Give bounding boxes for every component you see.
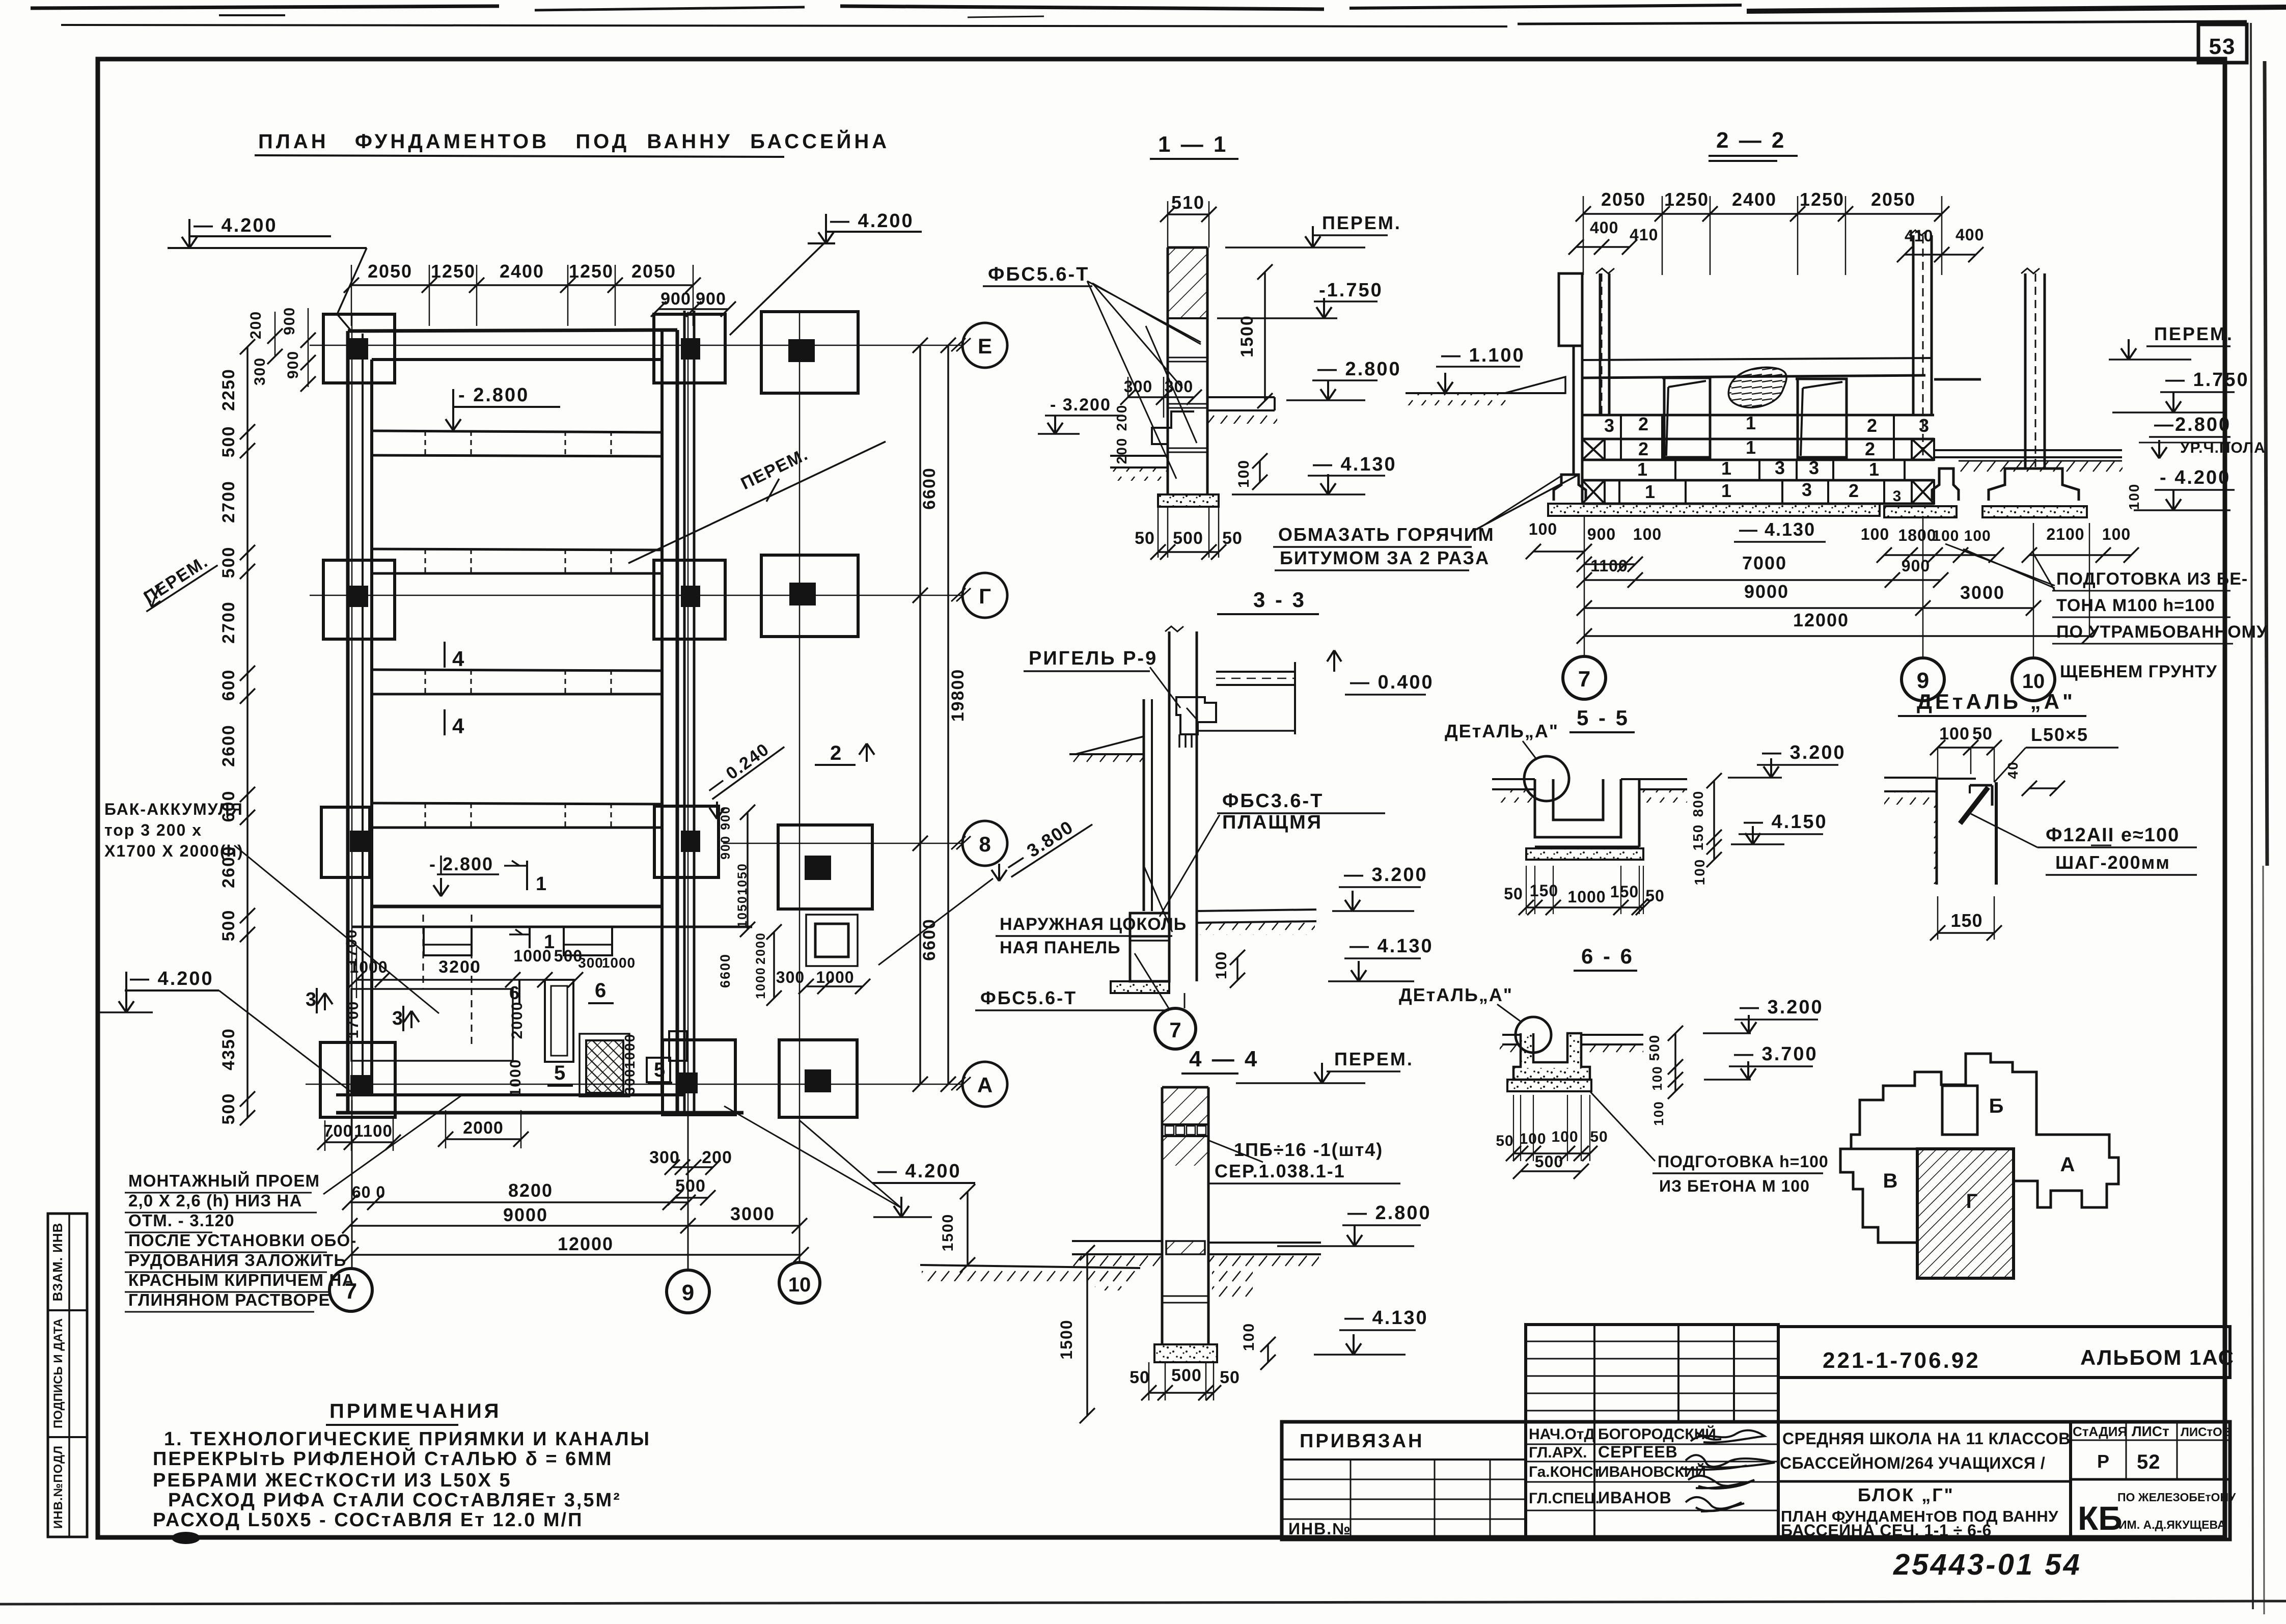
svg-text:1: 1 <box>536 873 546 895</box>
grid circle E <box>962 323 1007 368</box>
section title 1-1 <box>1150 132 1238 159</box>
section title 2-2 <box>1709 128 1798 161</box>
grid circle A <box>962 1062 1007 1107</box>
key plan inner white block <box>1942 1086 1977 1135</box>
svg-text:— 3.200: — 3.200 <box>1344 864 1428 886</box>
section 5-5 detail circle A <box>1524 756 1569 801</box>
svg-text:2: 2 <box>1867 415 1877 436</box>
svg-text:200: 200 <box>247 311 264 339</box>
section 5-5 bottom dims 50 150 1000 150 50 <box>1504 866 1665 915</box>
section 5-5 elevation -4.150 <box>1731 811 1828 844</box>
key plan building outline <box>1840 1054 2118 1278</box>
svg-text:ГЛИНЯНОМ РАСТВОРЕ: ГЛИНЯНОМ РАСТВОРЕ <box>128 1290 330 1309</box>
section 5-5 channel <box>1492 779 1639 847</box>
svg-text:ГЛ.СПЕЦ.: ГЛ.СПЕЦ. <box>1529 1490 1600 1507</box>
section 2-2 door panel left <box>1662 378 1710 457</box>
svg-text:900: 900 <box>696 289 726 309</box>
pool wall bottom (axis A) <box>336 1095 743 1113</box>
detail A dims 100 50 <box>1930 724 2002 782</box>
svg-text:150: 150 <box>1610 883 1639 901</box>
section 1-1 dim 100 <box>1235 453 1268 490</box>
column 7/A black square <box>350 1075 370 1096</box>
svg-text:ИНВ.№: ИНВ.№ <box>1288 1520 1352 1538</box>
svg-text:6 - 6: 6 - 6 <box>1581 944 1634 968</box>
svg-text:8: 8 <box>979 832 990 856</box>
detail A label shag-200mm <box>2046 852 2197 875</box>
section 1-1 dim 510 <box>1160 192 1217 247</box>
grid circle 9 bottom <box>667 1113 709 1313</box>
section 2-2 dims 9000 3000 <box>1577 581 2041 616</box>
elevation -2.800 machine room <box>429 854 499 896</box>
svg-text:БЛОК „Гʺ: БЛОК „Гʺ <box>1858 1484 1954 1505</box>
svg-text:50: 50 <box>1220 1368 1240 1387</box>
footing at 9/G <box>654 560 725 639</box>
detail A rebar diagonal <box>1960 787 1988 823</box>
svg-text:221-1-706.92: 221-1-706.92 <box>1823 1348 1980 1373</box>
right rotated dim chain 900 900 1050 1050 2000 1000 <box>719 805 782 1006</box>
svg-text:Х1700 Х 2000(h): Х1700 Х 2000(h) <box>104 842 244 860</box>
svg-text:— 4.130: — 4.130 <box>1313 454 1397 475</box>
svg-text:— 4.130: — 4.130 <box>1349 935 1434 957</box>
svg-text:Г: Г <box>979 584 991 608</box>
elevation -3.800 diagonal near axis 8 <box>878 807 1092 965</box>
footing at 7/A <box>320 1042 395 1117</box>
svg-text:ФБС5.6-Т: ФБС5.6-Т <box>980 987 1077 1008</box>
svg-text:400: 400 <box>1590 218 1618 237</box>
svg-text:— 3.200: — 3.200 <box>1762 742 1846 763</box>
svg-text:3200: 3200 <box>438 957 481 977</box>
title block stadiya list listov <box>2071 1422 2231 1479</box>
svg-text:100: 100 <box>1235 459 1252 488</box>
svg-text:2050: 2050 <box>368 261 412 282</box>
svg-text:1: 1 <box>1746 412 1756 433</box>
section 3-3 elevation -0.400 <box>1327 650 1434 695</box>
svg-text:ДЕтАЛЬ„Аʺ: ДЕтАЛЬ„Аʺ <box>1399 984 1513 1005</box>
svg-text:— 4.150: — 4.150 <box>1744 811 1828 833</box>
svg-text:900: 900 <box>285 350 301 379</box>
svg-text:ПЕРЕМ.: ПЕРЕМ. <box>2154 323 2234 344</box>
handwritten inventory number 25443-01 54 <box>1893 1548 2082 1581</box>
svg-text:А: А <box>2060 1153 2075 1176</box>
svg-text:150: 150 <box>1690 824 1706 851</box>
section 3-3 dim 100 <box>1213 950 1245 988</box>
svg-text:2000: 2000 <box>754 932 768 965</box>
scan artifact: torn top edge <box>31 5 2286 26</box>
title block upper small table <box>1526 1325 1778 1422</box>
section 2-2 dims row 100 900 100 -4.130 100 1800 100 100 2100 100 <box>1526 519 2139 572</box>
title block object name <box>1778 1429 2071 1539</box>
svg-text:19800: 19800 <box>948 669 968 722</box>
svg-text:5: 5 <box>554 1062 565 1084</box>
detail A dim 40 <box>2005 761 2065 796</box>
svg-text:500: 500 <box>219 546 238 579</box>
section 4-4 bottom dims 50 500 50 <box>1130 1362 1240 1400</box>
grid circle 7 bottom <box>329 1100 372 1311</box>
section 3-3 column <box>1165 626 1197 981</box>
svg-text:В: В <box>1883 1170 1898 1192</box>
section 4-4 wall <box>1162 1087 1208 1344</box>
column 7/E black square <box>349 338 368 360</box>
section 4-4 elevation -4.130 <box>1314 1307 1428 1355</box>
top dimension line 2050 1250 2400 1250 2050 <box>344 261 701 326</box>
section 2-2 top dimension line <box>1576 189 1949 275</box>
note podgotovka iz betona <box>1945 544 2268 681</box>
footing at 10/E standalone <box>761 312 858 393</box>
svg-text:2050: 2050 <box>631 261 676 282</box>
svg-text:300: 300 <box>622 1068 638 1095</box>
footing at 7/8 <box>321 807 370 877</box>
section 2-2 dims 1100 7000 900 <box>1577 553 1948 588</box>
elevation -4.200 left lower <box>97 968 356 1096</box>
svg-text:ЩЕБНЕМ ГРУНТУ: ЩЕБНЕМ ГРУНТУ <box>2060 662 2217 681</box>
svg-text:100: 100 <box>1861 525 1889 543</box>
svg-text:2400: 2400 <box>500 261 544 282</box>
svg-text:1000: 1000 <box>1567 888 1606 906</box>
column 9/8 black square <box>681 831 700 852</box>
svg-text:РИГЕЛЬ Р-9: РИГЕЛЬ Р-9 <box>1029 648 1158 669</box>
footing at 9/E <box>654 314 725 383</box>
section cut mark 2 right <box>815 742 874 765</box>
svg-text:1000: 1000 <box>754 967 768 999</box>
svg-text:1: 1 <box>1637 459 1647 480</box>
section 1-1 left dims 300 300 and 200 200 <box>1114 377 1202 464</box>
pool wall right (axis 9 inner) <box>662 330 677 1113</box>
footing at 10/8 standalone <box>778 825 872 909</box>
detail A floor slab left <box>1884 778 1937 884</box>
svg-text:200: 200 <box>702 1148 732 1167</box>
section 2-2 right elevation -4.200 <box>2126 467 2235 510</box>
section cut marks 3 <box>306 988 419 1031</box>
svg-text:700: 700 <box>323 1121 353 1140</box>
title block KB po zhelezobetonu <box>2078 1491 2236 1537</box>
section 6-6 channel <box>1513 1033 1590 1080</box>
wall on axis 9 full height <box>684 311 694 1113</box>
section 2-2 dims 410 400 right <box>1897 226 1984 262</box>
section 2-2 pool top surface line <box>1582 358 1981 379</box>
svg-text:4: 4 <box>452 647 464 671</box>
section 2-2 far right column (axis 10) <box>2021 268 2045 469</box>
svg-text:800: 800 <box>1690 790 1706 817</box>
note block montage opening <box>125 1096 461 1312</box>
svg-text:— 1.750: — 1.750 <box>2165 369 2249 391</box>
svg-text:— 4.200: — 4.200 <box>130 968 214 989</box>
grid line break ticks <box>951 338 971 1090</box>
svg-text:900: 900 <box>719 806 733 830</box>
svg-text:410: 410 <box>1630 226 1658 244</box>
section 6-6 footing slab <box>1507 1080 1591 1091</box>
key plan divider lines <box>1840 1149 2014 1278</box>
svg-text:НАЯ ПАНЕЛЬ: НАЯ ПАНЕЛЬ <box>1000 938 1121 957</box>
svg-text:300: 300 <box>252 357 268 386</box>
svg-text:50: 50 <box>1504 885 1523 903</box>
section 2-2 grid circle 9 <box>1902 658 1944 701</box>
elevation -0.240 diagonal <box>701 731 784 819</box>
section title 6-6 <box>1574 944 1637 971</box>
section cut marks 1 <box>504 861 555 953</box>
svg-text:100: 100 <box>1633 525 1662 543</box>
section 3-3 elevation -4.130 <box>1328 935 1434 981</box>
svg-text:3: 3 <box>306 989 316 1010</box>
label Detal A for 6-6 <box>1399 984 1520 1021</box>
section cut marks 6 and 5 <box>509 979 672 1086</box>
svg-text:ПЛАЩМЯ: ПЛАЩМЯ <box>1222 812 1323 833</box>
svg-text:1100: 1100 <box>1590 557 1628 575</box>
label FBS5.6-T top with leaders <box>983 264 1201 388</box>
detail A angle L50x5 corner <box>1970 785 1992 806</box>
svg-text:ИВАНОВ: ИВАНОВ <box>1598 1489 1672 1507</box>
grid axis 9 vertical <box>687 312 689 1271</box>
svg-text:900: 900 <box>660 289 691 309</box>
section 2-2 block rows <box>1582 412 1934 505</box>
svg-text:1500: 1500 <box>1237 315 1257 357</box>
svg-text:ОТМ. - 3.120: ОТМ. - 3.120 <box>128 1211 235 1230</box>
label tank Bak-akkumulya <box>104 800 439 1013</box>
footing at 10/A standalone <box>779 1040 857 1117</box>
section 1-1 footing slab <box>1158 494 1219 507</box>
scan artifact: bottom paper edge <box>0 1601 2286 1604</box>
svg-text:2050: 2050 <box>1601 189 1646 210</box>
section 4-4 footing slab <box>1154 1344 1217 1362</box>
svg-text:200: 200 <box>1114 437 1130 464</box>
svg-text:50: 50 <box>1972 724 1993 744</box>
floor beam strip 4 <box>372 803 662 828</box>
section 6-6 right dims 500 100 100 <box>1646 1026 1683 1126</box>
grid line 8 horizontal <box>723 843 962 844</box>
svg-text:БАССЕЙНА СЕЧ. 1-1 ÷ 6-6: БАССЕЙНА СЕЧ. 1-1 ÷ 6-6 <box>1781 1521 1992 1539</box>
svg-text:500: 500 <box>1646 1034 1662 1061</box>
machine room dashed pit outline <box>351 915 513 1061</box>
section 3-3 footing slab <box>1111 981 1169 993</box>
section 6-6 elevation -3.700 <box>1704 1043 1818 1080</box>
bottom dim 9000 3000 <box>342 1203 807 1233</box>
svg-text:РЕБРАМИ ЖЕСтКОСтИ ИЗ L50Х 5: РЕБРАМИ ЖЕСтКОСтИ ИЗ L50Х 5 <box>153 1470 512 1491</box>
svg-text:7000: 7000 <box>1742 553 1787 573</box>
section 4-4 elevation -2.800 <box>1277 1202 1431 1246</box>
svg-text:3 - 3: 3 - 3 <box>1253 588 1306 612</box>
section 1-1 bottom dims 50 500 50 <box>1135 507 1243 560</box>
svg-text:СБАССЕЙНОМ/264 УЧАЩИХСЯ /: СБАССЕЙНОМ/264 УЧАЩИХСЯ / <box>1780 1454 2045 1472</box>
svg-text:1 — 1: 1 — 1 <box>1158 132 1228 157</box>
svg-text:— 3.700: — 3.700 <box>1734 1043 1818 1065</box>
column 7/G black square <box>349 586 368 607</box>
svg-text:5 - 5: 5 - 5 <box>1577 706 1630 730</box>
svg-text:200: 200 <box>1114 404 1130 431</box>
floor beam strip 1 <box>372 431 662 456</box>
svg-text:1: 1 <box>1645 481 1655 502</box>
section 2-2 right elevation -2.800 ur.ch.pola <box>2139 414 2266 458</box>
svg-text:- 2.800: - 2.800 <box>429 854 493 874</box>
svg-text:2,0 Х 2,6 (h) НИЗ НА: 2,0 Х 2,6 (h) НИЗ НА <box>128 1191 302 1210</box>
section 3-3 floor slab lower right <box>1197 910 1316 935</box>
section cut mark 4 lower <box>445 709 464 738</box>
sheet number box 53 <box>2198 24 2247 63</box>
notes title primechaniya <box>326 1400 502 1425</box>
svg-text:25443-01 54: 25443-01 54 <box>1893 1548 2082 1581</box>
svg-text:— 1.100: — 1.100 <box>1441 345 1525 366</box>
detail A title <box>1898 690 2086 716</box>
svg-text:Б: Б <box>1989 1095 2004 1117</box>
svg-text:- 2.800: - 2.800 <box>458 384 529 406</box>
svg-text:1700: 1700 <box>343 929 360 967</box>
label 1PB-16-1 (sht4) <box>1209 1139 1383 1162</box>
svg-text:Р: Р <box>2097 1451 2109 1472</box>
svg-text:900: 900 <box>1587 525 1616 543</box>
svg-text:СтАДИЯ: СтАДИЯ <box>2073 1424 2127 1439</box>
section 1-1 elevation -2.800 <box>1286 359 1401 400</box>
svg-text:500: 500 <box>219 910 238 942</box>
svg-text:2: 2 <box>1849 480 1859 501</box>
svg-text:— 2.800: — 2.800 <box>1347 1202 1431 1224</box>
svg-text:500: 500 <box>219 426 238 458</box>
section title 3-3 <box>1217 588 1319 614</box>
section 4-4 dim 100 <box>1241 1323 1276 1370</box>
svg-text:РАСХОД РИФА СтАЛИ СОСтАВЛЯЕ: РАСХОД РИФА СтАЛИ СОСтАВЛЯЕт 3,5М² <box>168 1490 621 1511</box>
svg-text:9000: 9000 <box>503 1204 548 1225</box>
label SER.1.038.1-1 <box>1209 1161 1400 1183</box>
small rect near axis 9 <box>669 1031 687 1061</box>
svg-text:ПЕРЕМ.: ПЕРЕМ. <box>1334 1049 1414 1069</box>
svg-text:500: 500 <box>1535 1152 1563 1171</box>
bottom dim 8200 600 <box>342 1180 696 1210</box>
column 7/8 black square <box>350 831 369 852</box>
title block left privyazan box <box>1282 1430 1526 1539</box>
svg-text:3: 3 <box>1802 479 1812 500</box>
section 5-5 right dim chain 800 150 100 <box>1690 773 1722 885</box>
pit 5 small rectangle <box>647 1058 670 1082</box>
svg-text:10: 10 <box>788 1274 811 1296</box>
svg-text:9: 9 <box>682 1280 694 1305</box>
detail A wall <box>1937 779 1996 885</box>
svg-text:1250: 1250 <box>1664 189 1709 210</box>
svg-text:1000: 1000 <box>622 1033 638 1069</box>
svg-text:ТОНА М100 h=100: ТОНА М100 h=100 <box>2056 596 2215 615</box>
elevation -4.200 bottom right of plan with 1500 <box>724 1106 1140 1281</box>
right dims 300 1000 row 8 <box>776 968 870 994</box>
section 3-3 elevation -3.200 <box>1332 864 1428 911</box>
svg-text:53: 53 <box>2209 34 2236 59</box>
svg-text:ОБМАЗАТЬ ГОРЯЧИМ: ОБМАЗАТЬ ГОРЯЧИМ <box>1278 524 1495 545</box>
svg-text:6600: 6600 <box>718 953 733 988</box>
title block signatures section <box>1526 1422 1778 1539</box>
svg-text:1250: 1250 <box>569 261 614 282</box>
svg-text:1000: 1000 <box>507 1059 524 1097</box>
svg-text:ПЛАН ФУНДАМЕНТОВ ПОД ВАНН: ПЛАН ФУНДАМЕНТОВ ПОД ВАННУ БАССЕЙНА <box>258 129 890 153</box>
svg-text:ЛИСтОВ: ЛИСтОВ <box>2181 1425 2231 1439</box>
svg-text:3: 3 <box>1604 415 1614 436</box>
section 1-1 wall <box>1087 247 1207 494</box>
section 2-2 grid circle 10 <box>2012 658 2055 701</box>
svg-text:Ф12АII е≈100: Ф12АII е≈100 <box>2046 824 2180 846</box>
svg-text:2700: 2700 <box>219 480 238 523</box>
svg-text:РУДОВАНИЯ ЗАЛОЖИТЬ: РУДОВАНИЯ ЗАЛОЖИТЬ <box>128 1251 346 1270</box>
footing at 9/A <box>663 1040 735 1115</box>
section 2-2 base slabs <box>1548 504 2087 517</box>
section 5-5 side slabs and ground <box>1492 779 1687 803</box>
pool wall top (axis E) <box>348 330 677 360</box>
section 3-3 floor slab right <box>1197 662 1295 734</box>
svg-text:2600: 2600 <box>219 724 238 767</box>
section 2-2 dims 400 410 left <box>1568 218 1658 255</box>
svg-text:2100: 2100 <box>2046 525 2084 543</box>
svg-text:ПО ЖЕЛЕЗОБЕтОНУ: ПО ЖЕЛЕЗОБЕтОНУ <box>2117 1491 2236 1504</box>
label PEREM diagonal to beam strip 2 <box>628 442 886 563</box>
section 6-6 elevation -3.200 <box>1703 997 1824 1033</box>
svg-text:— 4.130: — 4.130 <box>1344 1307 1428 1329</box>
svg-text:900: 900 <box>719 835 733 860</box>
svg-text:100: 100 <box>2102 525 2131 543</box>
svg-text:2050: 2050 <box>1871 189 1916 210</box>
section 2-2 left wall and notch <box>1559 273 1602 501</box>
svg-text:1: 1 <box>1721 480 1731 501</box>
grid circle 8 <box>962 821 1007 866</box>
drawing title: PLAN FUNDAMENTOV POD VANNU BASSEINA <box>255 129 890 157</box>
svg-text:КБ: КБ <box>2078 1499 2123 1537</box>
svg-text:1: 1 <box>1721 458 1731 479</box>
svg-text:ПРИВЯЗАН: ПРИВЯЗАН <box>1300 1430 1424 1452</box>
svg-text:100: 100 <box>2126 483 2142 510</box>
svg-text:50: 50 <box>1590 1128 1608 1145</box>
svg-text:ПЕРЕМ.: ПЕРЕМ. <box>1322 212 1401 233</box>
detail A label L50x5 <box>1994 724 2118 782</box>
svg-text:— 4.200: — 4.200 <box>830 210 914 232</box>
svg-text:510: 510 <box>1171 192 1205 213</box>
svg-text:1800: 1800 <box>1898 526 1936 544</box>
section 2-2 hatched boulder blob <box>1728 367 1786 407</box>
section 2-2 dim 12000 <box>1577 516 2097 657</box>
svg-text:600: 600 <box>219 669 238 701</box>
label PEREM upper left diagonal <box>135 548 218 612</box>
svg-text:60 0: 60 0 <box>352 1183 385 1201</box>
svg-text:100 100: 100 100 <box>1932 528 1991 544</box>
note obmazat goryachim bitumom <box>1273 475 1579 570</box>
grid line G horizontal <box>310 595 962 596</box>
svg-text:150: 150 <box>1950 910 1982 931</box>
grid axis 10 vertical <box>799 312 801 1263</box>
small pit square below 10/8 (dashed) <box>806 915 858 966</box>
svg-text:50: 50 <box>1496 1133 1513 1149</box>
svg-text:ШАГ-200мм: ШАГ-200мм <box>2055 852 2170 873</box>
svg-text:— 3.200: — 3.200 <box>1740 997 1824 1018</box>
svg-text:1250: 1250 <box>1800 189 1844 210</box>
svg-text:2000: 2000 <box>509 1001 526 1039</box>
elevation -4.200 top right <box>730 210 922 335</box>
svg-text:— 4.130: — 4.130 <box>1739 519 1815 540</box>
svg-text:7: 7 <box>1169 1018 1181 1042</box>
pit rects below south wall <box>424 927 612 955</box>
svg-text:500: 500 <box>1173 529 1203 548</box>
svg-text:100: 100 <box>1651 1100 1666 1125</box>
svg-text:1: 1 <box>1869 459 1879 480</box>
svg-text:—2.800: —2.800 <box>2154 414 2231 435</box>
section 1-1 elevation -4.130 <box>1232 454 1397 494</box>
svg-text:СЕРГЕЕВ: СЕРГЕЕВ <box>1598 1443 1678 1461</box>
pool wall left (axis 7) <box>348 331 372 1113</box>
svg-text:АЛЬБОМ 1АС: АЛЬБОМ 1АС <box>2080 1345 2235 1369</box>
section 2-2 right elevation -1.750 <box>2112 369 2249 412</box>
svg-text:- 4.200: - 4.200 <box>2160 467 2230 488</box>
svg-text:300: 300 <box>1165 377 1193 396</box>
footing at 7/G <box>323 560 395 639</box>
svg-text:6: 6 <box>509 982 519 1003</box>
footing at 7/E <box>323 314 395 383</box>
floor beam strip 3 <box>372 670 662 694</box>
svg-text:ЛИСт: ЛИСт <box>2132 1423 2169 1439</box>
svg-text:3000: 3000 <box>1960 582 2005 603</box>
svg-text:3000: 3000 <box>730 1203 775 1224</box>
svg-text:— 4.200: — 4.200 <box>877 1161 961 1182</box>
section 3-3 rigel bracket <box>1176 697 1216 748</box>
section 5-5 footing slab <box>1526 848 1643 860</box>
